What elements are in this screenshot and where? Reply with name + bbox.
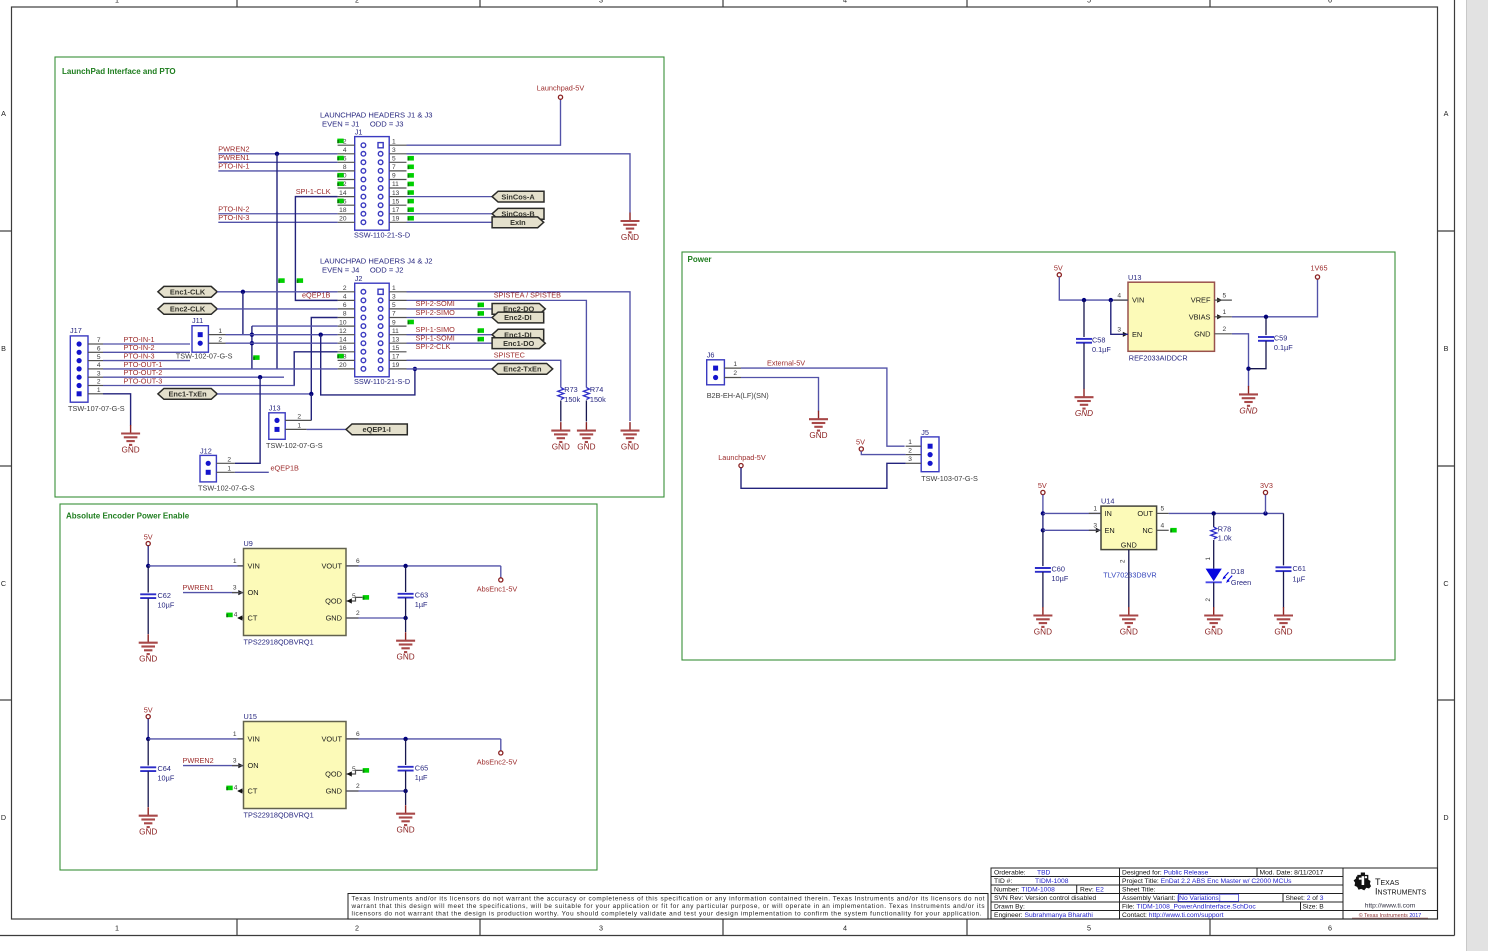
svg-text:Absolute Encoder Power Enable: Absolute Encoder Power Enable <box>66 512 190 521</box>
wire PWREN2 riser to PTO-OUT-1 <box>276 154 278 369</box>
green compile tag J1 pin 15 <box>408 199 414 204</box>
svg-text:3: 3 <box>599 0 603 5</box>
svg-text:VIN: VIN <box>248 735 260 744</box>
wire J2.5 to Enc2-DO <box>407 308 493 310</box>
ground GND (J6.2) <box>809 411 828 441</box>
svg-text:12: 12 <box>339 328 347 335</box>
svg-text:2: 2 <box>343 285 347 292</box>
green compile tag J1 pin 9 <box>408 173 414 178</box>
green compile tag U15 QOD pin5 <box>363 768 369 773</box>
wire to U14 EN <box>1043 529 1101 531</box>
wire J2.13 to Enc1-DO <box>407 342 493 344</box>
svg-text:D: D <box>1443 813 1448 822</box>
wire riser <box>1042 513 1044 530</box>
U15 QOD stub <box>346 770 362 774</box>
green compile tag J1 pin 12 <box>337 181 343 186</box>
svg-text:4: 4 <box>343 294 347 301</box>
svg-text:6: 6 <box>343 302 347 309</box>
svg-text:eQEP1-I: eQEP1-I <box>362 425 390 434</box>
svg-text:VOUT: VOUT <box>321 735 342 744</box>
svg-text:3: 3 <box>599 924 603 933</box>
port Enc1-DI <box>492 329 544 340</box>
svg-text:warrant that this design will: warrant that this design will meet the s… <box>351 903 985 910</box>
LED D18 <box>1206 569 1233 583</box>
svg-text:2: 2 <box>1120 559 1127 563</box>
svg-text:5V: 5V <box>856 437 865 446</box>
section box: Power <box>682 252 1395 660</box>
svg-text:8: 8 <box>343 311 347 318</box>
ground GND (R74) <box>577 422 596 452</box>
svg-text:J13: J13 <box>269 403 281 412</box>
wire PTO-IN-2 to J1.18 <box>218 213 337 215</box>
svg-text:5V: 5V <box>1038 481 1047 490</box>
green compile tag riser x252 <box>253 355 259 360</box>
svg-text:LaunchPad Interface and PTO: LaunchPad Interface and PTO <box>62 67 176 76</box>
U13 pin numbers <box>1117 292 1226 333</box>
wire J2.11 to Enc1-DI <box>407 334 493 336</box>
ground GND (C65) <box>396 805 415 835</box>
svg-text:Mod. Date: 8/11/2017: Mod. Date: 8/11/2017 <box>1260 870 1324 877</box>
J11 pin numbers <box>218 328 222 344</box>
wire J2.16 riser to PTO-OUT-3 <box>294 352 337 386</box>
svg-text:1µF: 1µF <box>1293 574 1306 583</box>
junction VOUT/C65 <box>403 737 407 741</box>
green compile tag U9 CT pin4 <box>226 613 232 618</box>
junction VBIAS / C59 <box>1264 315 1268 319</box>
capacitor C63 plates <box>398 594 414 598</box>
svg-text:2: 2 <box>908 447 912 454</box>
svg-text:Sheet Title:: Sheet Title: <box>1122 887 1156 894</box>
svg-text:SPI-1-CLK: SPI-1-CLK <box>296 187 331 196</box>
port ExIn <box>492 217 544 228</box>
green compile tag J1 pin 13 <box>408 190 414 195</box>
wire C_in to GND <box>147 771 149 807</box>
svg-text:1: 1 <box>297 423 301 430</box>
svg-text:VBIAS: VBIAS <box>1189 312 1211 321</box>
svg-text:Drawn By:: Drawn By: <box>994 904 1025 911</box>
svg-text:GND: GND <box>1075 409 1093 418</box>
svg-text:1: 1 <box>218 328 222 335</box>
svg-text:3: 3 <box>233 585 237 592</box>
wire Launchpad-5V to J5.3 <box>741 463 906 488</box>
wire R78 to D18 <box>1213 540 1215 569</box>
wire J2.8 riser <box>311 318 337 394</box>
junction PTO-OUT-2 / J12 riser <box>258 375 262 379</box>
U15 GND stub <box>346 790 359 792</box>
title block text <box>994 870 1324 920</box>
J1 pin numbers <box>339 138 400 222</box>
wire J2.1 to GND <box>407 292 631 421</box>
svg-text:J2: J2 <box>355 274 363 283</box>
svg-text:U13: U13 <box>1128 273 1141 282</box>
wire J1.17 to SinCos-B <box>407 213 493 215</box>
green compile tag J1 pin 16 <box>337 199 343 204</box>
svg-text:J12: J12 <box>200 446 212 455</box>
U13 VBIAS stub <box>1215 316 1232 318</box>
green compile tag J1 pin 11 <box>408 182 414 187</box>
svg-text:9: 9 <box>392 173 396 180</box>
svg-text:PTO-IN-1: PTO-IN-1 <box>218 162 249 171</box>
port Enc2-TxEn <box>492 364 553 375</box>
green compile tag J2 pin 5 <box>478 303 484 308</box>
junction loop / J2.19 <box>413 367 417 371</box>
ground GND (C62) <box>139 634 158 664</box>
svg-text:GND: GND <box>139 655 157 664</box>
green compile tag J2 pin 18 <box>337 354 343 359</box>
svg-text:GND: GND <box>809 431 827 440</box>
svg-text:VIN: VIN <box>1132 296 1144 305</box>
ground GND (C64) <box>139 807 158 837</box>
svg-text:GND: GND <box>1121 540 1137 549</box>
svg-text:J6: J6 <box>707 350 715 359</box>
U14 EN input arrow <box>1096 528 1101 533</box>
green compile tag J2 pin 7 <box>478 311 484 316</box>
wire 5V to U9 VIN <box>148 565 243 567</box>
power 5V (J5) <box>856 437 865 451</box>
junction U13 GND / C59 return <box>1246 367 1250 371</box>
connector J11 (TSW-102-07-G-S) <box>192 326 226 353</box>
svg-text:TPS22918QDBVRQ1: TPS22918QDBVRQ1 <box>244 810 314 819</box>
wire R73 to GND <box>560 401 562 422</box>
junction riser x252 / J11.1 <box>250 332 254 336</box>
wire J1.19 to ExIn <box>407 221 493 223</box>
U9 CT arrow <box>238 617 244 619</box>
svg-text:SPI-2-SIMO: SPI-2-SIMO <box>416 308 456 317</box>
svg-text:TSW-102-07-G-S: TSW-102-07-G-S <box>198 483 255 492</box>
svg-text:Engineer: Subrahmanya Bharath: Engineer: Subrahmanya Bharathi <box>994 912 1093 919</box>
power 5V (U15) <box>144 705 153 718</box>
wire PWREN1 to ON <box>183 592 244 594</box>
svg-text:GND: GND <box>326 787 342 796</box>
wire J2.7 to Enc2-DI <box>407 317 493 319</box>
capacitor C61 plates <box>1276 567 1292 571</box>
wire C65 stem mid <box>405 771 407 791</box>
wire C63 stem top <box>405 566 407 592</box>
capacitor C59 plates <box>1258 337 1274 341</box>
svg-text:10µF: 10µF <box>1052 574 1069 583</box>
svg-text:2: 2 <box>733 370 737 377</box>
disclaimer text box <box>348 894 988 920</box>
svg-text:TSW-102-07-G-S: TSW-102-07-G-S <box>266 441 323 450</box>
svg-text:6: 6 <box>1328 924 1332 933</box>
svg-text:Enc1-CLK: Enc1-CLK <box>170 288 206 297</box>
J5 pin numbers <box>908 439 912 463</box>
wire J11.2 to J2.14 <box>226 342 338 344</box>
wire J1.1 to Launchpad-5V <box>407 99 561 145</box>
power 5V (U13) <box>1054 263 1063 277</box>
svg-text:GND: GND <box>1239 406 1257 415</box>
port Enc1-DO <box>492 338 545 349</box>
svg-text:3: 3 <box>97 370 101 377</box>
wire to U14 IN <box>1043 512 1101 514</box>
svg-text:1: 1 <box>733 361 737 368</box>
svg-text:VOUT: VOUT <box>321 562 342 571</box>
svg-text:SinCos-A: SinCos-A <box>501 192 535 201</box>
svg-text:7: 7 <box>392 164 396 171</box>
svg-text:1: 1 <box>115 0 119 5</box>
svg-text:VIN: VIN <box>248 562 260 571</box>
svg-text:J11: J11 <box>192 316 203 325</box>
svg-text:5V: 5V <box>1054 263 1063 272</box>
wire PTO-OUT-2 <box>103 376 284 378</box>
J17 pin numbers <box>97 337 101 394</box>
wire C60 stem <box>1042 530 1044 566</box>
svg-text:PTO-IN-3: PTO-IN-3 <box>218 213 249 222</box>
U15 VIN stub <box>238 738 244 740</box>
wire J17.1 to GND <box>103 394 131 426</box>
svg-text:10µF: 10µF <box>158 773 175 782</box>
wire VBIAS to 1V65 <box>1232 279 1318 317</box>
svg-text:3V3: 3V3 <box>1260 481 1273 490</box>
svg-text:C65: C65 <box>415 763 428 772</box>
svg-text:11: 11 <box>392 328 399 335</box>
svg-text:R78: R78 <box>1218 524 1231 533</box>
svg-text:Number: TIDM-1008: Number: TIDM-1008 <box>994 887 1055 894</box>
svg-text:C61: C61 <box>1293 564 1306 573</box>
power 1V65 <box>1310 264 1327 279</box>
svg-text:Enc2-DI: Enc2-DI <box>504 313 532 322</box>
J2 pin numbers <box>339 285 400 369</box>
junction rail / R78 <box>1212 511 1216 515</box>
ground GND (C60) <box>1033 607 1052 637</box>
wire Enc1-TxEn <box>217 393 311 395</box>
power Launchpad-5V (J5) <box>718 453 766 468</box>
ground GND (J1.3) <box>621 213 640 243</box>
wire 3V3 rail <box>1169 512 1284 514</box>
wire PWREN2 to ON <box>183 765 244 767</box>
U15 VOUT stub <box>346 738 359 740</box>
svg-text:1: 1 <box>233 731 237 738</box>
svg-text:1: 1 <box>1093 506 1097 513</box>
svg-text:1: 1 <box>227 466 231 473</box>
svg-text:Launchpad-5V: Launchpad-5V <box>718 453 766 462</box>
svg-text:1: 1 <box>908 439 912 446</box>
wire J13.1 to eQEP1-I <box>307 428 346 430</box>
svg-text:SPISTEA / SPISTEB: SPISTEA / SPISTEB <box>494 291 561 300</box>
svg-text:10µF: 10µF <box>158 600 175 609</box>
svg-text:13: 13 <box>392 190 400 197</box>
U13 EN input arrow <box>1123 332 1128 337</box>
wire J2.10 wire <box>252 325 338 327</box>
svg-text:GND: GND <box>396 653 414 662</box>
wire J6.2 to GND <box>741 378 819 412</box>
green compile tag J2 pin 9 <box>408 320 414 325</box>
green compile tag J1 pin 19 <box>408 216 414 221</box>
wire PTO-OUT-2 riser to J12.2 <box>235 377 260 463</box>
svg-text:EN: EN <box>1105 526 1115 535</box>
svg-text:EVEN = J1 ODD = J3: EVEN = J1 ODD = J3 <box>322 120 403 129</box>
svg-text:1V65: 1V65 <box>1310 264 1327 273</box>
svg-text:B: B <box>1444 344 1449 353</box>
svg-text:AbsEnc2-5V: AbsEnc2-5V <box>477 758 518 767</box>
svg-text:TPS22918QDBVRQ1: TPS22918QDBVRQ1 <box>244 637 314 646</box>
capacitor C65 plates <box>398 767 414 771</box>
svg-text:File: TIDM-1008_PowerAndInterf: File: TIDM-1008_PowerAndInterface.SchDoc <box>1122 904 1256 911</box>
wire PTO-IN-3 to J1.20 <box>218 221 337 223</box>
svg-text:GND: GND <box>1034 628 1052 637</box>
U9 VIN stub <box>238 565 244 567</box>
wire J1.13 to SinCos-A <box>407 196 493 198</box>
svg-text:R74: R74 <box>590 385 603 394</box>
svg-text:PWREN1: PWREN1 <box>183 583 214 592</box>
svg-text:5: 5 <box>1161 506 1165 513</box>
U9 ON input arrow <box>238 590 243 595</box>
svg-text:4: 4 <box>234 612 238 619</box>
wire PTO-OUT-1 to J2.20 <box>103 368 338 370</box>
svg-text:NC: NC <box>1142 526 1153 535</box>
title block table <box>991 868 1438 919</box>
wire U9 VOUT <box>346 565 501 567</box>
svg-text:SPI-2-CLK: SPI-2-CLK <box>416 342 451 351</box>
section box: Absolute Encoder Power Enable <box>60 504 597 870</box>
svg-text:Rev: E2: Rev: E2 <box>1080 887 1104 894</box>
svg-text:15: 15 <box>392 198 400 205</box>
power 3V3 <box>1260 481 1273 495</box>
svg-text:1: 1 <box>115 924 119 933</box>
connector J1 (SSW-110-21-S-D 2x10 header) <box>338 137 407 231</box>
wire 5V drop <box>1042 495 1044 514</box>
wire U14 GND to GND <box>1128 550 1130 608</box>
svg-text:VREF: VREF <box>1191 296 1211 305</box>
junction Enc1-CLK riser <box>241 290 245 294</box>
svg-text:ON: ON <box>248 588 259 597</box>
svg-text:17: 17 <box>392 354 400 361</box>
wire PWREN2 to J1.4 <box>218 153 337 155</box>
U14 pin numbers <box>1093 506 1164 530</box>
wire J12.1 eQEP1B <box>235 471 269 473</box>
svg-text:3: 3 <box>392 294 396 301</box>
svg-text:Project Title: EnDat 2.2 ABS E: Project Title: EnDat 2.2 ABS Enc Master … <box>1122 878 1292 885</box>
svg-text:2: 2 <box>97 379 101 386</box>
green compile tag U15 CT pin4 <box>226 786 232 791</box>
svg-text:1: 1 <box>97 387 101 394</box>
port Enc1-TxEn <box>158 389 217 400</box>
power AbsEnc2-5V <box>477 751 518 767</box>
svg-text:1: 1 <box>392 285 396 292</box>
junction 5V / U14 EN <box>1041 528 1045 532</box>
svg-text:7: 7 <box>392 311 396 318</box>
junction PWREN2 / PTO-OUT-1 riser <box>275 152 279 156</box>
wire SPI-1-CLK J1.14 to J2.4 <box>295 197 337 301</box>
green compile tag J2 pin 11 <box>478 328 484 333</box>
wire C63 to GND <box>405 618 407 632</box>
svg-text:0.1µF: 0.1µF <box>1274 343 1293 352</box>
svg-text:SPISTEC: SPISTEC <box>494 351 525 360</box>
junction Enc1-TxEn / J13 riser <box>309 392 313 396</box>
U14 NC stub <box>1157 529 1169 531</box>
svg-text:B: B <box>1 344 6 353</box>
wire U13 GND down <box>1232 334 1249 387</box>
ground GND (U14) <box>1119 607 1138 637</box>
svg-text:Enc1-DO: Enc1-DO <box>503 339 534 348</box>
svg-text:5V: 5V <box>144 705 153 714</box>
svg-text:GND: GND <box>621 443 639 452</box>
junction J2.12 branch <box>319 332 323 336</box>
IC U14 (TLV70233DBVR) <box>1101 506 1157 549</box>
U14 OUT stub <box>1157 512 1169 514</box>
svg-text:B2B-EH-A(LF)(SN): B2B-EH-A(LF)(SN) <box>707 391 769 400</box>
svg-text:Launchpad-5V: Launchpad-5V <box>537 84 585 93</box>
svg-text:2: 2 <box>1223 326 1227 333</box>
capacitor C64 plates <box>140 767 156 771</box>
green compile tag U14 NC pin4 <box>1170 528 1176 533</box>
svg-text:GND: GND <box>121 446 139 455</box>
svg-text:C62: C62 <box>158 591 171 600</box>
svg-text:1µF: 1µF <box>415 773 428 782</box>
svg-text:11: 11 <box>392 181 399 188</box>
svg-text:4: 4 <box>97 362 101 369</box>
wire C61 to GND <box>1283 571 1285 607</box>
svg-text:150k: 150k <box>564 395 580 404</box>
svg-text:GND: GND <box>1194 329 1210 338</box>
wire C65 to GND <box>405 791 407 805</box>
svg-text:1: 1 <box>392 138 396 145</box>
svg-text:C64: C64 <box>158 764 171 773</box>
section box: LaunchPad Interface and PTO <box>55 57 664 497</box>
svg-text:5: 5 <box>97 354 101 361</box>
svg-text:C: C <box>1 579 6 588</box>
wire J2.12 loop to J2.19 <box>321 335 415 395</box>
svg-text:PTO-OUT-3: PTO-OUT-3 <box>124 376 163 385</box>
svg-text:Enc1-TxEn: Enc1-TxEn <box>168 390 207 399</box>
U13 VREF stub <box>1215 299 1232 301</box>
svg-text:GND: GND <box>396 826 414 835</box>
green compile tag U9 QOD pin5 <box>363 595 369 600</box>
wire EN riser <box>1111 300 1128 334</box>
port SinCos-B <box>492 208 544 219</box>
grey page margin right <box>1467 0 1488 951</box>
svg-text:ON: ON <box>248 761 259 770</box>
svg-text:A: A <box>1444 109 1449 118</box>
junction riser x252 / J11.2 <box>250 341 254 345</box>
U14 EN stub <box>1089 529 1101 531</box>
U9 QOD stub <box>346 597 362 601</box>
svg-text:9: 9 <box>392 319 396 326</box>
wire Enc2-CLK to J2.6 <box>217 308 337 310</box>
svg-text:17: 17 <box>392 207 400 214</box>
svg-text:SSW-110-21-S-D: SSW-110-21-S-D <box>354 231 410 240</box>
U15 CT arrow <box>238 790 244 792</box>
J13 pin numbers <box>297 414 301 430</box>
green compile tag J1 pin 10 <box>337 173 343 178</box>
connector J6 (B2B-EH-A(LF)(SN)) <box>707 360 741 385</box>
svg-text:15: 15 <box>392 345 400 352</box>
junction 5V/U15 VIN <box>146 737 150 741</box>
wire U15 GND to C65 <box>346 790 406 792</box>
svg-text:2: 2 <box>218 336 222 343</box>
svg-text:EVEN = J4 ODD = J2: EVEN = J4 ODD = J2 <box>322 266 403 275</box>
svg-text:5: 5 <box>1223 292 1227 299</box>
wire 5V to U15 VIN <box>148 738 243 740</box>
power 5V (U9) <box>144 532 153 545</box>
U13 GND stub <box>1215 333 1232 335</box>
junction 5V / EN riser <box>1109 298 1113 302</box>
svg-text:2: 2 <box>356 783 360 790</box>
svg-text:1: 1 <box>233 558 237 565</box>
ground GND (D18) <box>1204 607 1223 637</box>
wire C59 stem top <box>1265 317 1267 335</box>
svg-text:QOD: QOD <box>325 597 342 606</box>
U9 GND stub <box>346 617 359 619</box>
svg-text:5: 5 <box>392 302 396 309</box>
port Enc2-DO <box>492 304 545 315</box>
svg-text:Contact: http://www.ti.com/su: Contact: http://www.ti.com/support <box>1122 912 1224 919</box>
IC U13 (REF2033AIDDCR) <box>1128 282 1215 351</box>
svg-text:External-5V: External-5V <box>767 359 805 368</box>
wire PWREN1 to J1.6 <box>218 161 337 163</box>
svg-text:GND: GND <box>577 443 595 452</box>
svg-text:EN: EN <box>1132 330 1142 339</box>
